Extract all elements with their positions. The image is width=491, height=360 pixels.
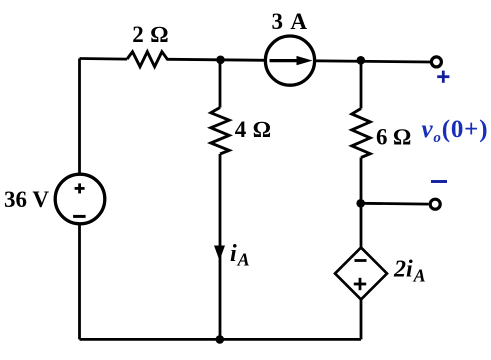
- wire: 6Ω top lead: [360, 60, 363, 108]
- blue + sign at output: [437, 71, 449, 83]
- dependent source − mark: [355, 259, 367, 262]
- terminal plus (open circle): [431, 57, 441, 67]
- wire: 6Ω bottom lead to diamond top: [360, 158, 363, 249]
- node dot top of 6Ω branch: [357, 56, 366, 65]
- resistor R2 4Ω zigzag: [211, 108, 229, 155]
- blue − sign at output: [431, 180, 447, 183]
- terminal minus (open circle): [430, 199, 440, 209]
- voltage source + mark: [75, 183, 85, 193]
- wire: top rail left segment (corner to 2Ω): [80, 57, 128, 60]
- wire: 4Ω bottom lead to bottom rail: [219, 154, 222, 339]
- resistor R3 6Ω zigzag: [352, 109, 370, 158]
- node dot output minus node: [356, 199, 365, 208]
- dependent source U2 diamond 2iA: [335, 248, 387, 300]
- wire: left vertical branch: [78, 59, 81, 340]
- svg-text:6 Ω: 6 Ω: [376, 125, 411, 150]
- svg-text:3 A: 3 A: [271, 9, 308, 34]
- resistor R1 2Ω zigzag: [127, 52, 171, 67]
- wire: 4Ω top lead: [219, 60, 222, 108]
- svg-text:36 V: 36 V: [4, 187, 49, 212]
- wire: bottom rail: [80, 338, 362, 341]
- wire: diamond bottom to rail: [360, 300, 363, 340]
- wire: top rail 2Ω to + terminal: [171, 59, 430, 62]
- svg-text:2 Ω: 2 Ω: [132, 22, 168, 47]
- arrowhead of current i_A: [214, 246, 225, 261]
- voltage source V1 36V circle: [55, 174, 105, 224]
- wire: node to bottom terminal: [361, 202, 429, 206]
- node dot top of 4Ω branch: [216, 56, 225, 65]
- svg-text:vo(0+): vo(0+): [422, 116, 489, 146]
- dependent source + mark: [354, 278, 366, 290]
- current source U1 3A circle: [265, 36, 314, 85]
- current source 3A arrow: [270, 59, 301, 62]
- node dot bottom of 4Ω branch: [216, 335, 225, 344]
- voltage source − mark: [73, 215, 86, 218]
- svg-text:4 Ω: 4 Ω: [235, 117, 271, 142]
